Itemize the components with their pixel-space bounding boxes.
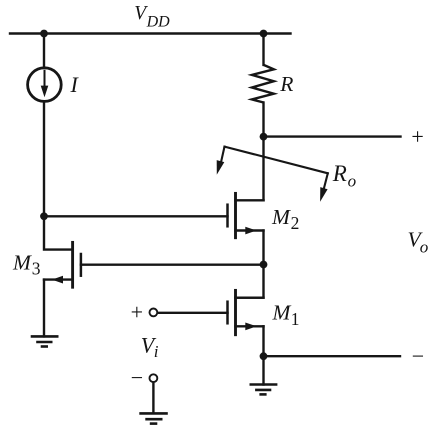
arrow Ro indicator [217,147,328,202]
wire current source to M3 node [43,101,45,216]
wire M3 gate to M1 drain node [81,264,264,266]
label R [279,72,293,96]
svg-text:M: M [271,205,291,229]
svg-text:R: R [332,161,347,186]
label M3 [12,250,41,278]
wire node to M3 drain [44,216,73,249]
svg-text:−: − [131,365,143,390]
label - output [412,344,424,369]
ground input [139,413,168,423]
wire M2 drain to output node [262,137,264,201]
junction output node [260,133,268,141]
label I [70,72,80,97]
wire output node to ground [262,356,264,384]
ground output [250,385,278,395]
label Ro [332,161,356,191]
ground M3 [31,336,59,346]
label M2 [271,205,299,233]
wire input + to M1 gate [158,312,228,314]
terminal - input [150,374,158,382]
svg-text:o: o [420,237,429,256]
svg-text:DD: DD [146,14,171,31]
transistor M3 [44,242,81,287]
label Vo [408,228,429,257]
label + output [411,124,423,149]
svg-text:+: + [411,124,423,149]
wire M2 source to node [262,231,264,265]
transistor M1 [228,290,264,334]
wire M3 source to ground [43,280,45,337]
junction VDD / resistor R [260,30,268,38]
wire resistor to output node [262,103,264,137]
junction current source / M3 drain / M2 gate [40,212,48,220]
svg-text:−: − [412,344,424,369]
wire input - to ground [152,383,154,414]
svg-text:I: I [70,72,80,97]
wire VDD to current source [43,34,45,67]
wire node to M1 drain [236,264,264,297]
svg-text:1: 1 [291,309,300,329]
junction VDD / current source [40,30,48,38]
svg-text:3: 3 [32,259,41,279]
label - input [131,365,143,390]
label + input [131,299,143,324]
wire node to M2 gate [44,215,228,217]
junction M2 source / M1 drain [260,261,268,269]
terminal + input [150,309,158,317]
svg-text:R: R [279,72,293,96]
wire M1 source to output node [262,326,264,356]
wire VDD to resistor [262,34,264,65]
transistor M2 [228,193,264,237]
svg-text:M: M [272,301,292,325]
svg-text:M: M [12,250,32,274]
svg-text:2: 2 [291,213,300,233]
resistor R [252,65,274,103]
svg-text:o: o [348,171,357,190]
label M1 [272,301,300,329]
wire output node to + terminal [264,135,401,137]
wire output node to - terminal [264,355,401,357]
current source I [28,68,62,102]
wire top VDD rail [10,32,291,34]
label Vi [141,332,159,361]
svg-text:i: i [154,342,159,361]
label VDD [134,3,170,31]
svg-text:+: + [131,299,143,324]
junction M1 source / output - [260,352,268,360]
